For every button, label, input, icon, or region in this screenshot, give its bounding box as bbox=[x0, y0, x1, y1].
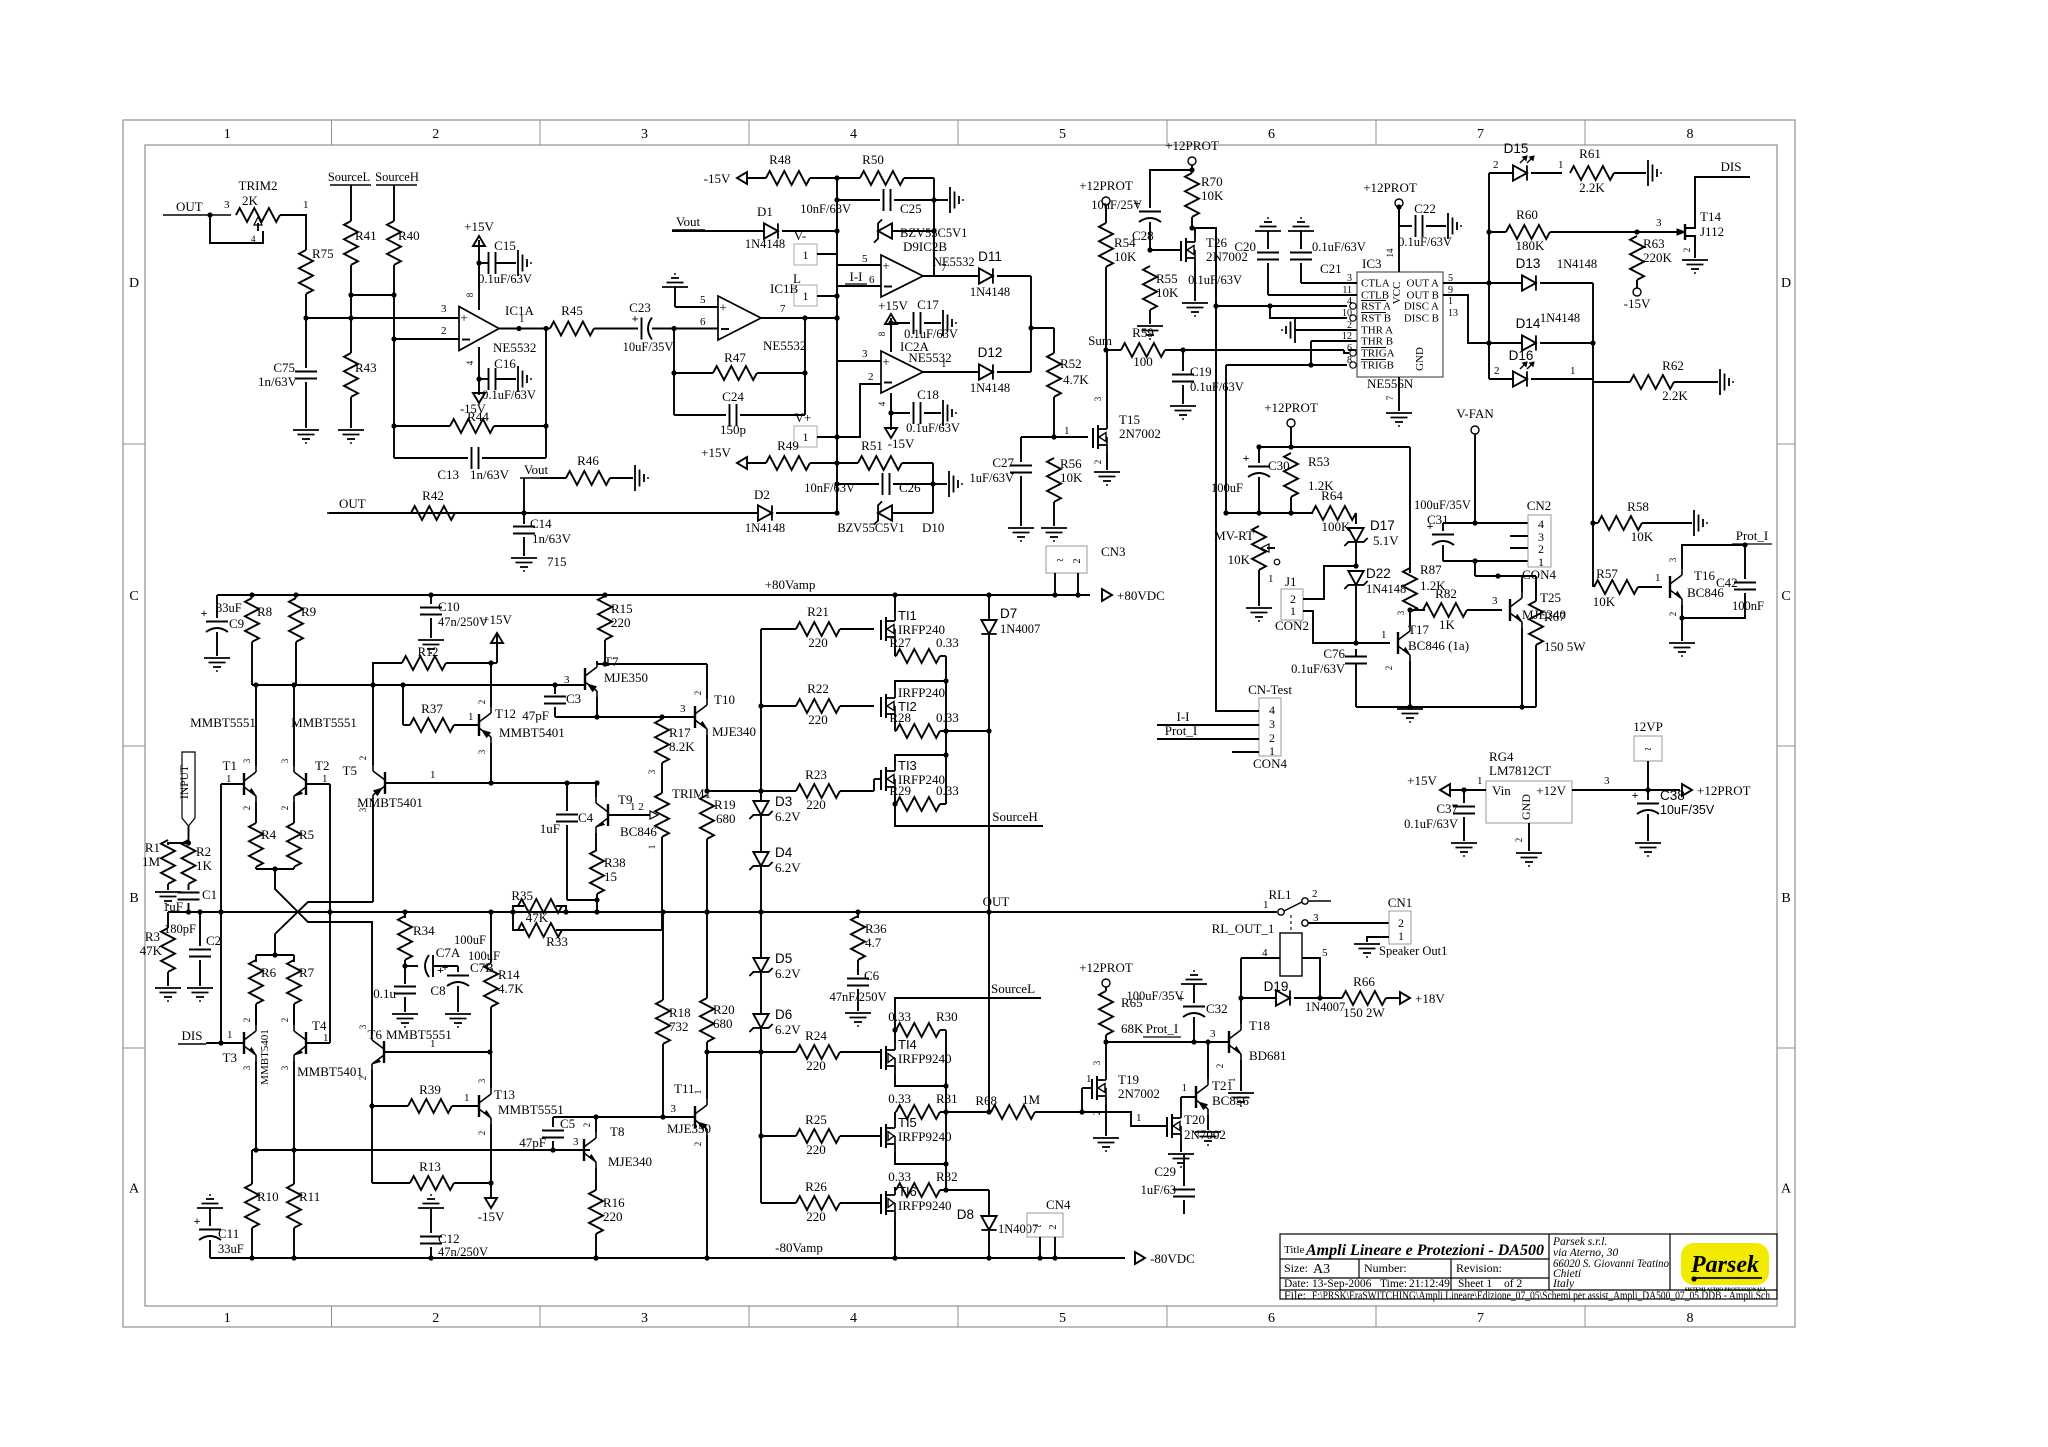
svg-text:D14: D14 bbox=[1516, 316, 1541, 331]
svg-text:3: 3 bbox=[1604, 775, 1610, 787]
wire to IC1A pin3 bbox=[306, 317, 459, 319]
svg-text:2: 2 bbox=[582, 1123, 592, 1128]
wire T8 collector bbox=[595, 1117, 597, 1132]
resistor R3 47K bbox=[167, 912, 169, 928]
svg-text:0.1uF/63V: 0.1uF/63V bbox=[904, 327, 958, 341]
svg-text:1: 1 bbox=[1182, 1082, 1188, 1094]
wire TI1 source bbox=[894, 645, 896, 656]
svg-text:1: 1 bbox=[1570, 365, 1576, 377]
wire node vertical V- bbox=[836, 178, 838, 254]
svg-text:SourceH: SourceH bbox=[375, 170, 419, 184]
resistor R52 4.7K bbox=[1047, 353, 1061, 397]
svg-text:MMBT5551: MMBT5551 bbox=[386, 1027, 452, 1042]
svg-text:8: 8 bbox=[1687, 1311, 1694, 1326]
svg-text:10K: 10K bbox=[1060, 470, 1083, 485]
svg-text:A: A bbox=[1781, 1182, 1792, 1197]
svg-text:0.33: 0.33 bbox=[888, 1169, 911, 1184]
resistor R43 bbox=[344, 353, 358, 397]
Parsek logo bbox=[1681, 1243, 1769, 1285]
svg-text:NE5532: NE5532 bbox=[933, 255, 975, 269]
wire IC3 pin14 VCC bbox=[1398, 207, 1400, 272]
svg-text:6: 6 bbox=[869, 274, 875, 286]
svg-text:C12: C12 bbox=[438, 1231, 460, 1246]
wire T5 base row bbox=[385, 782, 597, 784]
svg-text:R35: R35 bbox=[511, 888, 533, 903]
wire T9 collector column bbox=[595, 783, 597, 797]
svg-text:IRFP9240: IRFP9240 bbox=[898, 1129, 951, 1144]
svg-text:D13: D13 bbox=[1516, 256, 1541, 271]
wire T20 source bbox=[1180, 1142, 1182, 1152]
capacitor C12 47n/250V bbox=[418, 1207, 444, 1209]
wire CN4 stubs bbox=[1039, 1237, 1041, 1258]
svg-text:C: C bbox=[1781, 589, 1790, 604]
resistor R41 bbox=[344, 221, 358, 265]
svg-text:R5: R5 bbox=[299, 827, 314, 842]
resistor R64 100K bbox=[1312, 506, 1356, 520]
wire T9 emitter to R38 bbox=[595, 833, 597, 850]
svg-text:1: 1 bbox=[227, 1029, 233, 1041]
svg-text:C20: C20 bbox=[1234, 239, 1256, 254]
svg-text:Time:: Time: bbox=[1380, 1278, 1407, 1290]
svg-text:MMBT5401: MMBT5401 bbox=[259, 1029, 271, 1085]
connector CN-Test bbox=[1259, 698, 1281, 756]
wire R23 row bbox=[707, 790, 796, 792]
svg-text:TI1: TI1 bbox=[898, 608, 917, 623]
svg-text:D11: D11 bbox=[978, 249, 1002, 264]
trimmer TRIM2 2K bbox=[236, 208, 280, 222]
svg-text:1N4007: 1N4007 bbox=[998, 1222, 1038, 1236]
op-amp IC2A NE5532 bbox=[881, 351, 923, 393]
svg-text:4: 4 bbox=[465, 360, 475, 365]
svg-text:C21: C21 bbox=[1320, 261, 1342, 276]
svg-text:180pF: 180pF bbox=[164, 922, 196, 936]
wire T11 emitter up bbox=[706, 1052, 708, 1099]
wire CN-Test pin1 bbox=[1232, 751, 1259, 753]
svg-text:C25: C25 bbox=[900, 201, 922, 216]
wire R51 vertical right bbox=[932, 463, 934, 513]
diode D14 1N4148 bbox=[1522, 335, 1536, 350]
svg-text:1: 1 bbox=[430, 769, 436, 781]
ground C75 bbox=[293, 429, 319, 431]
svg-text:2N7002: 2N7002 bbox=[1184, 1127, 1226, 1142]
ground R43 bbox=[338, 429, 364, 431]
transistor T12 MMBT5401 bbox=[478, 714, 480, 736]
svg-text:14: 14 bbox=[1385, 248, 1395, 258]
wire IC1B pin5 bbox=[675, 306, 718, 308]
capacitor C4 1uF bbox=[564, 780, 569, 785]
svg-text:6.2V: 6.2V bbox=[775, 1022, 801, 1037]
svg-text:1n/63V: 1n/63V bbox=[532, 531, 572, 546]
svg-text:R51: R51 bbox=[861, 438, 883, 453]
relay RL1 coil bbox=[1280, 933, 1302, 976]
svg-text:R27: R27 bbox=[889, 635, 911, 650]
wire T12 emitter down bbox=[490, 743, 492, 783]
wire T4 base bbox=[306, 1042, 330, 1044]
wire IC1A output bbox=[499, 328, 550, 330]
resistor R7 bbox=[293, 955, 295, 962]
svg-text:220: 220 bbox=[808, 712, 828, 727]
svg-text:7: 7 bbox=[1477, 1311, 1484, 1326]
svg-text:CON2: CON2 bbox=[1275, 618, 1309, 633]
svg-text:1K: 1K bbox=[1439, 617, 1456, 632]
svg-text:DIS: DIS bbox=[1721, 159, 1742, 174]
resistor R17 8.2K bbox=[661, 717, 663, 719]
svg-text:12: 12 bbox=[1342, 331, 1352, 342]
resistor R27 0.33 bbox=[895, 655, 896, 657]
title block bbox=[1280, 1234, 1777, 1299]
svg-text:D16: D16 bbox=[1509, 348, 1534, 363]
svg-text:R75: R75 bbox=[312, 246, 334, 261]
wire +80Vamp bus bbox=[217, 594, 1090, 596]
capacitor C8 0.1u bbox=[404, 966, 406, 984]
wire right rail lower x946 bbox=[945, 1030, 947, 1190]
ground C18 bbox=[942, 400, 944, 426]
wire Vout branch bbox=[523, 478, 525, 513]
svg-text:I-I: I-I bbox=[1177, 709, 1190, 724]
svg-text:4: 4 bbox=[877, 401, 887, 406]
wire T13 collector bbox=[490, 1052, 492, 1088]
wire T20 drain bbox=[1180, 1097, 1182, 1110]
capacitor C25 10nF/63V bbox=[837, 199, 880, 201]
wire CN-Test pin4 bbox=[1216, 306, 1259, 711]
ground R61 bbox=[1647, 160, 1649, 186]
ground C17 bbox=[942, 310, 944, 336]
svg-text:1N4007: 1N4007 bbox=[1000, 622, 1040, 636]
svg-text:3: 3 bbox=[477, 1078, 487, 1083]
svg-text:680: 680 bbox=[713, 1016, 733, 1031]
wire CN-Test pin2 Prot_I bbox=[1157, 738, 1259, 740]
svg-text:Revision:: Revision: bbox=[1456, 1261, 1502, 1275]
trimmer MV-RT 10K bbox=[1252, 526, 1266, 570]
svg-text:2: 2 bbox=[441, 325, 447, 337]
resistor R9 bbox=[289, 598, 303, 642]
svg-text:NE5532: NE5532 bbox=[493, 340, 536, 355]
capacitor C32 100uF/35V bbox=[1181, 983, 1207, 985]
wire -80Vamp bus bbox=[210, 1257, 1125, 1259]
resistor R24 220 bbox=[796, 1045, 840, 1059]
resistor R63 220K bbox=[1630, 236, 1644, 280]
wire T14 drain to DIS bbox=[1695, 177, 1750, 210]
svg-text:R23: R23 bbox=[805, 767, 827, 782]
connector CN1 bbox=[1389, 911, 1411, 944]
wire IC2A -15V bbox=[890, 393, 892, 430]
svg-text:1: 1 bbox=[303, 199, 309, 211]
ground R56 bbox=[1041, 527, 1067, 529]
svg-text:3: 3 bbox=[358, 1024, 368, 1029]
wire TI3 gate jog bbox=[873, 779, 875, 791]
svg-text:T13: T13 bbox=[494, 1087, 515, 1102]
svg-text:4: 4 bbox=[850, 127, 857, 142]
wire TRIM1 bottom to R33 bbox=[661, 837, 663, 930]
svg-text:100nF: 100nF bbox=[1732, 599, 1764, 613]
svg-text:R19: R19 bbox=[714, 797, 736, 812]
transistor T5 MMBT5401 bbox=[384, 772, 386, 794]
wire T18 emitter gnd bbox=[1240, 1060, 1242, 1091]
svg-text:T10: T10 bbox=[714, 692, 735, 707]
svg-text:220: 220 bbox=[806, 1142, 826, 1157]
svg-text:R36: R36 bbox=[865, 921, 887, 936]
resistor R26 220 bbox=[761, 1202, 796, 1204]
svg-text:10K: 10K bbox=[1593, 594, 1616, 609]
capacitor C30 100uF bbox=[1258, 447, 1260, 463]
wire R6R7 node bbox=[272, 952, 277, 957]
svg-text:TRIGA: TRIGA bbox=[1361, 348, 1395, 360]
svg-text:R37: R37 bbox=[421, 701, 443, 716]
svg-text:Number:: Number: bbox=[1364, 1261, 1407, 1275]
svg-text:SISTEMI AUDIO PROFESSIONALI: SISTEMI AUDIO PROFESSIONALI bbox=[1685, 1288, 1766, 1293]
svg-text:2: 2 bbox=[242, 1018, 252, 1023]
transistor T4 MMBT5401 bbox=[305, 1032, 307, 1054]
resistor R44 feedback bbox=[393, 339, 395, 458]
svg-text:TI4: TI4 bbox=[898, 1037, 917, 1052]
wire right rail upper x946 bbox=[945, 656, 947, 804]
wire T17 collector bbox=[1409, 622, 1411, 625]
svg-text:10uF/35V: 10uF/35V bbox=[1660, 803, 1715, 817]
connector CN4 bbox=[1027, 1213, 1063, 1237]
resistor R16 220 bbox=[589, 1190, 603, 1234]
svg-text:220: 220 bbox=[808, 635, 828, 650]
wire T2 base bus bbox=[306, 783, 330, 785]
svg-text:0.33: 0.33 bbox=[936, 635, 959, 650]
svg-text:TRIGB: TRIGB bbox=[1361, 360, 1394, 372]
transistor TI3 IRFP240 bbox=[880, 770, 882, 790]
svg-text:2: 2 bbox=[1347, 320, 1352, 331]
wire MV rail bbox=[1226, 512, 1313, 514]
wire R75 to node bbox=[305, 294, 307, 318]
svg-text:1: 1 bbox=[430, 1038, 436, 1050]
svg-text:1: 1 bbox=[1448, 296, 1453, 307]
svg-text:0.1uF/63V: 0.1uF/63V bbox=[1291, 662, 1345, 676]
ground C15 bbox=[517, 250, 519, 276]
svg-text:IC3: IC3 bbox=[1362, 256, 1382, 271]
svg-text:6: 6 bbox=[1268, 1311, 1275, 1326]
svg-text:5: 5 bbox=[1059, 1311, 1066, 1326]
node feedback right bbox=[543, 326, 548, 331]
transistor T10 MJE340 bbox=[694, 706, 696, 728]
resistor R4 bbox=[249, 823, 263, 867]
svg-text:1: 1 bbox=[1064, 425, 1070, 437]
svg-text:D15: D15 bbox=[1504, 141, 1529, 156]
svg-text:T25: T25 bbox=[1540, 590, 1561, 605]
transistor T7 MJE350 bbox=[584, 668, 586, 690]
wire junction to R52 bbox=[1031, 327, 1054, 329]
svg-text:File:: File: bbox=[1284, 1288, 1306, 1302]
svg-text:D4: D4 bbox=[775, 845, 793, 860]
wire T1 collector bbox=[255, 685, 257, 766]
resistor R14 4.7K bbox=[490, 912, 492, 963]
wire V-FAN down bbox=[1474, 561, 1476, 576]
svg-text:NE556N: NE556N bbox=[1367, 376, 1414, 391]
resistor R58 10K bbox=[1593, 522, 1598, 524]
svg-text:T16: T16 bbox=[1694, 568, 1715, 583]
capacitor C23 10uF/35V polarized bbox=[641, 318, 643, 340]
resistor R39 bbox=[372, 1105, 408, 1107]
wire TI4 source up bbox=[894, 1030, 896, 1042]
terminal -15V IC1A bbox=[473, 393, 485, 403]
svg-text:R8: R8 bbox=[257, 604, 272, 619]
svg-text:3: 3 bbox=[280, 758, 290, 763]
svg-text:MMBT5401: MMBT5401 bbox=[357, 795, 423, 810]
wire SourceH bbox=[892, 801, 897, 806]
transistor T26 2N7002 bbox=[1180, 241, 1182, 261]
resistor R30 0.33 bbox=[895, 1029, 896, 1031]
svg-text:C10: C10 bbox=[438, 599, 460, 614]
wire RSTB row bbox=[1270, 306, 1347, 318]
svg-text:D: D bbox=[1781, 276, 1791, 291]
wire T4 emitter bbox=[293, 1061, 295, 1150]
svg-text:R62: R62 bbox=[1662, 358, 1684, 373]
svg-text:R30: R30 bbox=[936, 1009, 958, 1024]
svg-text:R82: R82 bbox=[1435, 586, 1457, 601]
wire J1 pin2 bbox=[1303, 566, 1356, 599]
svg-text:10uF/25V: 10uF/25V bbox=[1091, 198, 1142, 212]
zener D4 6.2V bbox=[753, 852, 768, 866]
wire IC1A +15V supply bbox=[478, 240, 480, 310]
svg-text:~: ~ bbox=[1034, 1218, 1041, 1233]
wire IC3 pin7 GND bbox=[1398, 377, 1400, 411]
svg-text:C9: C9 bbox=[229, 616, 244, 631]
resistor R38 15 bbox=[590, 850, 604, 894]
svg-text:C76: C76 bbox=[1323, 646, 1345, 661]
resistor R2 1K bbox=[188, 843, 190, 845]
svg-text:1N4007: 1N4007 bbox=[1305, 1000, 1345, 1014]
svg-text:TRIM1: TRIM1 bbox=[672, 786, 711, 801]
svg-text:R2: R2 bbox=[196, 844, 211, 859]
resistor R11 bbox=[293, 1150, 295, 1184]
svg-text:C17: C17 bbox=[917, 297, 939, 312]
svg-text:MMBT5551: MMBT5551 bbox=[190, 715, 256, 730]
wire TI2 source bbox=[894, 722, 896, 731]
svg-text:-80VDC: -80VDC bbox=[1150, 1251, 1195, 1266]
transistor T17 BC846 bbox=[1397, 632, 1399, 654]
svg-text:10nF/63V: 10nF/63V bbox=[800, 202, 851, 216]
wire T16 emitter gnd bbox=[1681, 605, 1683, 641]
svg-text:R61: R61 bbox=[1579, 146, 1601, 161]
svg-text:Vout: Vout bbox=[676, 214, 701, 229]
svg-text:R48: R48 bbox=[769, 152, 791, 167]
svg-text:T15: T15 bbox=[1119, 412, 1140, 427]
svg-text:13: 13 bbox=[1448, 308, 1458, 319]
wire TRIGB row bbox=[1226, 364, 1347, 366]
svg-text:1: 1 bbox=[1398, 929, 1404, 943]
wire OUT column to R68 bbox=[988, 912, 990, 1112]
terminal -15V R13 bbox=[490, 1183, 492, 1198]
wire T10 emitter down bbox=[706, 735, 708, 791]
svg-text:1: 1 bbox=[1558, 159, 1564, 171]
transistor T6 MMBT5551 bbox=[383, 1041, 385, 1063]
svg-text:R29: R29 bbox=[889, 783, 911, 798]
svg-text:T5: T5 bbox=[343, 763, 357, 778]
wire C26 row bbox=[836, 463, 838, 513]
zener D17 5.1V bbox=[1348, 528, 1363, 542]
svg-text:2: 2 bbox=[1682, 248, 1692, 253]
svg-text:Italy: Italy bbox=[1552, 1278, 1575, 1290]
wire TI4 drain bbox=[895, 1074, 946, 1086]
transistor TI2 IRFP240 bbox=[880, 697, 882, 717]
svg-text:0.1uF/63V: 0.1uF/63V bbox=[1188, 273, 1242, 287]
svg-text:1: 1 bbox=[1227, 1078, 1237, 1083]
svg-text:C11: C11 bbox=[218, 1226, 239, 1241]
wire R41 down bbox=[350, 265, 352, 353]
wire R40 to IC1A pin2 bbox=[393, 265, 395, 339]
svg-text:5.1V: 5.1V bbox=[1373, 533, 1399, 548]
diode D12 1N4148 bbox=[979, 364, 993, 379]
svg-text:R53: R53 bbox=[1308, 454, 1330, 469]
svg-text:J112: J112 bbox=[1700, 224, 1724, 239]
svg-text:C29: C29 bbox=[1154, 1164, 1176, 1179]
svg-text:15: 15 bbox=[604, 869, 617, 884]
resistor R53 1.2K bbox=[1284, 453, 1298, 497]
svg-text:3: 3 bbox=[573, 1136, 579, 1148]
wire lower bus y1150 bbox=[252, 1149, 590, 1151]
svg-text:10uF/35V: 10uF/35V bbox=[623, 340, 674, 354]
resistor R59 100 bbox=[1106, 349, 1121, 351]
svg-text:4.7K: 4.7K bbox=[498, 981, 524, 996]
resistor R12 bbox=[373, 663, 402, 685]
svg-text:T17: T17 bbox=[1408, 622, 1429, 637]
svg-text:8.2K: 8.2K bbox=[669, 739, 695, 754]
diode D8 1N4007 bbox=[988, 1190, 990, 1216]
svg-text:+12PROT: +12PROT bbox=[1697, 783, 1751, 798]
svg-text:100uF: 100uF bbox=[468, 949, 500, 963]
wire IC2A pin3 bbox=[837, 360, 881, 362]
resistor R66 150 2W bbox=[1320, 997, 1342, 999]
svg-text:IRFP9240: IRFP9240 bbox=[898, 1051, 951, 1066]
ground R46 bbox=[634, 465, 636, 491]
node Sum bbox=[1103, 347, 1108, 352]
svg-text:3: 3 bbox=[641, 1311, 648, 1326]
svg-text:R4: R4 bbox=[261, 827, 277, 842]
wire TI3 drain bbox=[895, 755, 946, 763]
svg-text:7: 7 bbox=[1385, 395, 1395, 400]
diode D1 1N4148 bbox=[764, 223, 778, 238]
wire D1 to node bbox=[782, 230, 837, 232]
transistor T14 J112 JFET bbox=[1637, 231, 1680, 233]
svg-text:2: 2 bbox=[477, 700, 487, 705]
svg-text:T4: T4 bbox=[312, 1018, 327, 1033]
transistor T13 MMBT5551 bbox=[478, 1095, 480, 1117]
wire V- box to bus bbox=[817, 253, 837, 255]
svg-text:R59: R59 bbox=[1132, 325, 1154, 340]
svg-text:C37: C37 bbox=[1436, 801, 1458, 816]
svg-text:6: 6 bbox=[700, 316, 706, 328]
svg-text:1: 1 bbox=[1381, 629, 1387, 641]
svg-text:1: 1 bbox=[1263, 899, 1269, 911]
svg-text:8: 8 bbox=[465, 292, 475, 297]
svg-text:C26: C26 bbox=[899, 480, 921, 495]
svg-text:+15V: +15V bbox=[1407, 773, 1437, 788]
svg-text:+80Vamp: +80Vamp bbox=[765, 577, 816, 592]
capacitor C19 0.1uF/63V bbox=[1182, 350, 1184, 371]
svg-text:RST B: RST B bbox=[1361, 313, 1391, 325]
svg-text:~: ~ bbox=[1056, 552, 1063, 567]
svg-text:MJE340: MJE340 bbox=[712, 724, 756, 739]
svg-text:4.7: 4.7 bbox=[865, 935, 882, 950]
svg-text:Title: Title bbox=[1284, 1244, 1305, 1256]
svg-text:R63: R63 bbox=[1643, 236, 1665, 251]
resistor R50 bbox=[860, 171, 904, 185]
svg-text:220: 220 bbox=[806, 1209, 826, 1224]
resistor R60 180K bbox=[1489, 231, 1506, 233]
svg-text:2: 2 bbox=[242, 806, 252, 811]
svg-text:T7: T7 bbox=[604, 654, 619, 669]
resistor R10 bbox=[251, 1150, 253, 1184]
wire T3 emitter bbox=[255, 1061, 257, 1150]
svg-text:47nF/250V: 47nF/250V bbox=[830, 990, 887, 1004]
wire TRIGA row bbox=[1348, 349, 1357, 351]
wire T1 emitter R4 bbox=[255, 802, 257, 823]
svg-text:3: 3 bbox=[441, 303, 447, 315]
